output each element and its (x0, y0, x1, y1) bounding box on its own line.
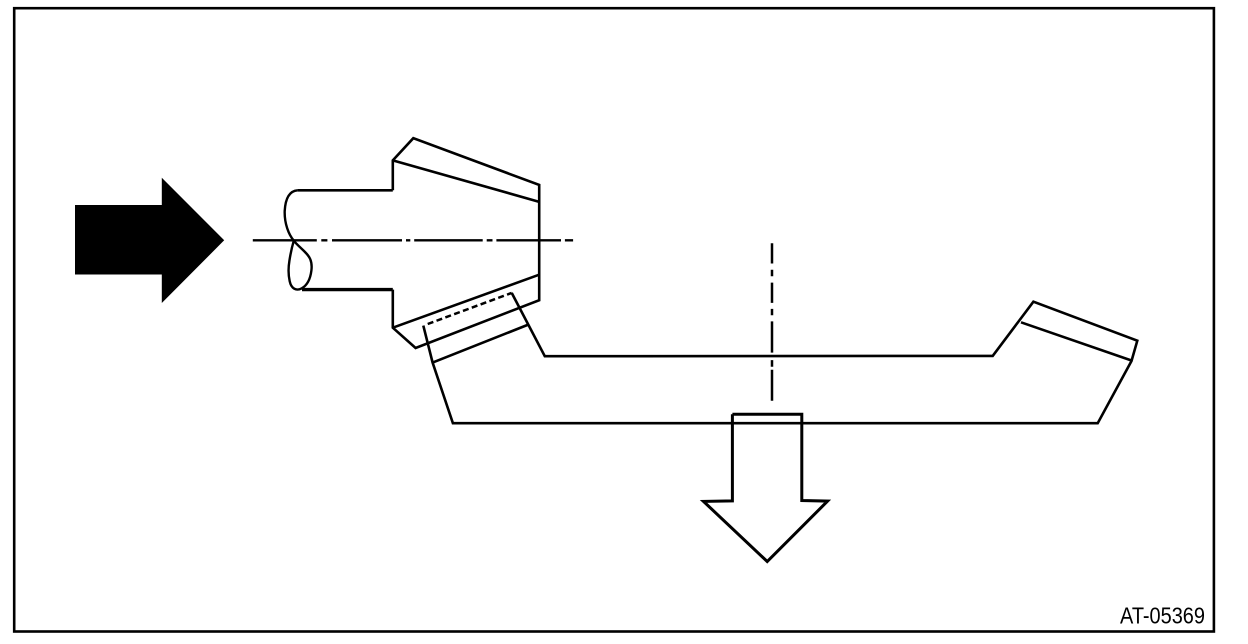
ring gear: right tooth-face inner line (1021, 322, 1132, 360)
thrust arrow (solid black, pointing right) (75, 178, 224, 303)
drive pinion: shaft top line (298, 189, 393, 192)
ring gear: left tooth-face root line (433, 325, 529, 363)
ring gear: body outline (423, 293, 1137, 423)
drive pinion: lower tooth-face inner line (393, 275, 539, 328)
ring gear: hidden mesh line (dashed) (428, 293, 512, 324)
horizontal dash-dot centerline of pinion shaft (253, 239, 573, 241)
drive pinion: upper tooth-face inner line (393, 160, 539, 201)
drive pinion: gear body outline (393, 138, 539, 348)
load arrow (outline, pointing down) (704, 414, 828, 561)
drive pinion: shaft break loop (cursive teardrop at broken shaft end) (285, 190, 312, 289)
drive pinion: shaft bottom line (302, 288, 393, 291)
svg-text:AT-05369: AT-05369 (1120, 603, 1205, 629)
vertical dash-dot centerline of ring gear (771, 243, 774, 401)
